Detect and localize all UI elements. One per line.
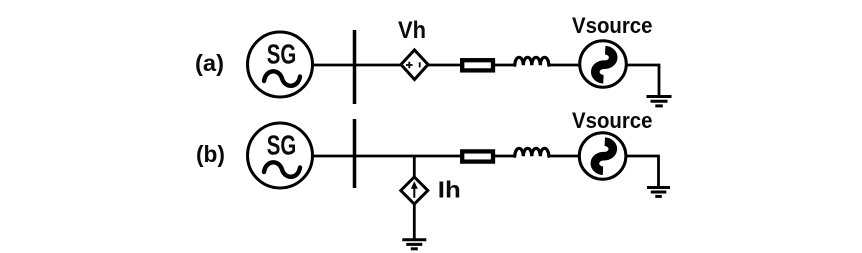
bus bar (a) <box>353 30 357 104</box>
svg-text:Vh: Vh <box>398 17 426 44</box>
wire Ih to ground (b) <box>413 204 416 239</box>
wire inductor to Vsource (b) <box>549 155 580 158</box>
AC voltage source Vsource (b) <box>579 133 626 180</box>
ground below Ih (b) <box>402 240 426 249</box>
svg-text:SG: SG <box>267 39 297 70</box>
dependent voltage source Vh <box>401 50 428 80</box>
wire resistor to inductor (a) <box>495 64 515 67</box>
wire Vsource to ground corner (b) <box>626 156 659 187</box>
wire Vsource to ground corner (a) <box>626 65 659 96</box>
ground (b) <box>647 188 670 197</box>
svg-text:Ih: Ih <box>438 176 461 202</box>
bus bar (b) <box>353 119 357 188</box>
generator SG (b) <box>248 123 313 188</box>
dependent current source Ih <box>401 177 428 204</box>
wire resistor to inductor (b) <box>495 155 515 158</box>
wire SG to resistor (b) <box>312 155 462 158</box>
svg-text:(b): (b) <box>196 141 225 167</box>
generator SG (a) <box>248 32 313 97</box>
inductor (a) <box>515 57 549 65</box>
svg-text:(a): (a) <box>195 50 224 76</box>
wire SG to Vh diamond (a) <box>312 64 402 67</box>
wire inductor to Vsource (a) <box>549 64 580 67</box>
wire junction down to Ih (b) <box>413 156 416 178</box>
svg-text:Vsource: Vsource <box>572 13 653 38</box>
svg-text:Vsource: Vsource <box>572 108 653 133</box>
resistor (b) <box>462 151 493 161</box>
wire Vh to resistor (a) <box>428 64 462 67</box>
ground (a) <box>647 97 672 106</box>
inductor (b) <box>515 148 549 156</box>
svg-text:SG: SG <box>267 130 297 161</box>
AC voltage source Vsource (a) <box>580 41 627 88</box>
resistor (a) <box>462 60 493 70</box>
